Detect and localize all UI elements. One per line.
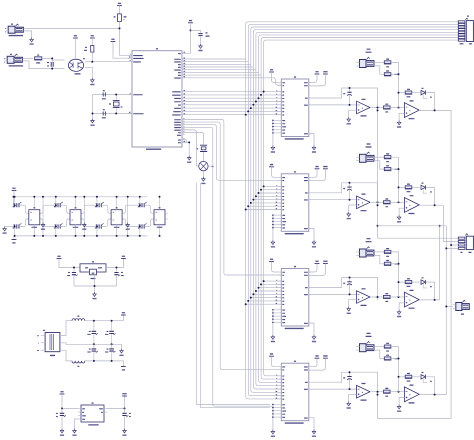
wire opto collector to PIC <box>85 52 132 63</box>
node MCLR junction <box>119 27 121 29</box>
wire opamp1a noninv to ground <box>349 110 357 117</box>
diode D clamp row 2 <box>412 183 435 206</box>
wire opamp3b output <box>419 299 439 301</box>
wire RA pin to transducer <box>182 130 196 166</box>
wire R to opamp4b <box>390 391 404 393</box>
ground opamp3a <box>347 307 351 314</box>
wire opamp2a noninv to ground <box>349 205 357 212</box>
capacitor pair ladder col 1 <box>13 196 29 237</box>
wire divider to node row 1 <box>391 62 400 107</box>
op-amp U REF08 voltage reference <box>78 403 107 426</box>
wire Vdd to VCC <box>190 25 192 54</box>
resistor R load row 3 <box>384 260 398 266</box>
wire opamp2b noninv to ground <box>399 208 404 215</box>
ground opamp1a <box>347 117 351 124</box>
ground DAC4 right <box>312 430 316 437</box>
power P/V regulator <box>57 256 80 268</box>
wire R to opamp3b <box>390 296 404 298</box>
capacitor pair ladder col 2 <box>40 196 70 237</box>
resistor R trim row 3 <box>384 248 391 257</box>
capacitor C psu bottom 2 <box>105 344 116 362</box>
capacitor C1 input <box>47 57 53 69</box>
op-amp U4.1 LT1112 I-V <box>357 383 371 401</box>
node bus junctions row 3 <box>245 280 265 305</box>
op-amp U4 DAC08CN digital-analog converter <box>273 171 309 234</box>
wire DAC1 RFB feedback <box>309 88 378 110</box>
wire osc ground leg <box>92 95 94 119</box>
power P/V VREF DAC1 <box>309 71 328 86</box>
ground opamp2b <box>397 215 401 222</box>
wire xfmr mid <box>60 343 122 345</box>
wire opamp1b output <box>419 109 451 111</box>
wire jack row 3 <box>374 252 384 264</box>
ground opto emitter <box>90 78 94 85</box>
power N/V PSU <box>121 367 126 371</box>
capacitor pair ladder col 4 <box>122 196 154 237</box>
capacitor C feedback row 2 <box>343 182 352 201</box>
resistor R gain row 2 <box>384 198 391 207</box>
wire DAC4 OUT2 to ground <box>309 418 314 430</box>
wire R1 to MCLR node <box>120 22 133 56</box>
capacitor C osc2 <box>102 109 106 118</box>
wire top rail PSU <box>85 315 124 321</box>
wire Vss to ground <box>182 140 190 156</box>
wire jack row 4 <box>374 347 384 359</box>
wire to aux power jack <box>445 306 452 308</box>
power P/V ref <box>60 391 78 409</box>
resistor R gain row 3 <box>384 293 391 302</box>
power VCC DAC2 <box>269 164 278 177</box>
power VCC opto emitter <box>73 35 78 58</box>
connector J jack row 3 <box>356 238 374 257</box>
ground below MIDI connector <box>30 38 34 45</box>
ground ladder 3 <box>126 196 130 237</box>
wire CV out row1 buffered <box>377 110 459 418</box>
wire opamp3a output <box>370 296 383 298</box>
wire ladder input feed <box>13 196 16 205</box>
wire feedback stage2 row 3 <box>398 281 405 283</box>
wire data bus verticals and connector bends <box>246 22 459 399</box>
op-amp U regulator 78L05 <box>80 261 106 279</box>
op-amp U4.2 LT1112 buffer <box>404 385 419 404</box>
wire ladder bottom rail <box>14 235 148 237</box>
wire divider to node row 4 <box>391 347 400 392</box>
op-amp U3.2 LT1112 buffer <box>404 290 419 309</box>
power VCC rail top <box>117 3 122 14</box>
ground DAC3 right <box>312 335 316 342</box>
connector J jack row 4 <box>356 333 374 352</box>
op-amp U2.2 LT1112 buffer <box>404 195 419 214</box>
wire jack row 2 <box>374 157 384 169</box>
wire row1 chip enable <box>264 78 282 85</box>
power P/V VREF DAC2 <box>309 166 328 181</box>
crystal X1 <box>196 145 207 161</box>
capacitor pair ladder col 3 <box>81 196 111 237</box>
wire regulator ground <box>74 275 117 292</box>
power P/V VREF DAC3 <box>309 261 328 276</box>
op-amp U ladder 3 LT1112 <box>111 196 122 237</box>
wire divider to node row 2 <box>391 157 400 202</box>
resistor R gain row 4 <box>384 388 391 397</box>
wire CV out row3 <box>439 225 441 300</box>
ground ref out cap <box>122 429 126 436</box>
power VCC for OSC <box>111 39 132 59</box>
ground Vdd cap <box>198 44 202 51</box>
ground regulator <box>92 292 96 299</box>
op-amp U1.1 LT1112 I-V <box>357 99 371 117</box>
op-amp U2.1 LT1112 I-V <box>357 194 371 212</box>
wire DAC3 RFB feedback <box>309 278 378 300</box>
wire opamp2b output <box>419 204 443 206</box>
wire R to opamp1b <box>390 107 404 109</box>
capacitor C ref in <box>56 409 66 429</box>
wire regulator out to VCC <box>106 259 124 268</box>
connector J4 CV outputs <box>458 234 473 253</box>
crystal X2 4MHz <box>109 94 122 115</box>
wire DAC select lines <box>182 120 281 407</box>
power VCC DAC1 <box>269 69 278 82</box>
resistor R load row 2 <box>384 165 398 171</box>
capacitor C2 decoupling <box>191 30 210 44</box>
wire DAC1 OUT2 to ground <box>309 134 314 146</box>
wire CV out row4 rail <box>378 226 459 395</box>
connector J jack row 1 <box>356 49 374 68</box>
wire aux control line A <box>197 183 271 405</box>
wire PIC port C to DAC1 data <box>182 92 281 115</box>
power VCC opto collector <box>90 35 95 45</box>
wire opamp4b output <box>419 394 446 396</box>
ground DAC1 left <box>271 145 275 152</box>
resistor R load row 4 <box>384 355 398 361</box>
op-amp U5 DAC08CN digital-analog converter <box>273 266 309 329</box>
resistor R load row 1 <box>384 70 398 75</box>
power N/V ladder <box>12 236 17 244</box>
op-amp U3.1 LT1112 I-V <box>357 288 371 306</box>
resistor R2 series <box>35 55 42 64</box>
wire PIC to crystal <box>182 133 204 145</box>
inductor L2 <box>72 361 85 367</box>
transformer T1 <box>37 330 60 356</box>
capacitor C feedback row 3 <box>343 277 352 296</box>
node Vdd cap junction <box>190 29 192 31</box>
wire DAC4 RFB feedback <box>309 372 378 394</box>
capacitor C osc1 <box>102 90 106 99</box>
wire OSC2 net <box>93 113 133 115</box>
ground opamp3b <box>397 310 401 317</box>
capacitor C psu top 2 <box>105 320 116 346</box>
wire PIC port B to bus <box>182 59 264 78</box>
op-amp U ladder 4 LT1112 <box>154 196 165 237</box>
ground opamp4a <box>347 401 351 408</box>
capacitor C feedback row 1 <box>343 87 352 106</box>
wire feedback stage2 row 1 <box>398 92 405 94</box>
wire DAC2 analog pins to ground <box>272 214 273 240</box>
wire CV out row1 tap <box>377 109 459 238</box>
op-amp U ladder 1 LT1112 <box>29 196 40 237</box>
wire PSU mid to ground <box>121 344 123 348</box>
ground ref pin <box>72 429 76 436</box>
power VREF out <box>122 393 127 396</box>
resistor R trim row 2 <box>384 153 391 162</box>
ground opamp4b <box>397 405 401 412</box>
wire DAC2 RFB feedback <box>309 183 378 205</box>
wire MIDI to MCU net <box>23 27 119 29</box>
capacitor C reg out <box>114 267 123 287</box>
resistor R feedback2 row 3 <box>405 278 412 287</box>
wire opto emitter to ground <box>85 67 92 78</box>
ground ladder input <box>3 227 16 234</box>
resistor R feedback2 row 4 <box>405 373 412 382</box>
resistor R feedback2 row 2 <box>405 184 412 193</box>
optocoupler U2 <box>68 58 85 74</box>
resistor R feedback2 row 1 <box>405 89 412 98</box>
wire opamp3a noninv to ground <box>349 300 357 307</box>
wire opamp4b noninv to ground <box>399 398 404 405</box>
wire MIDI shield to ground <box>23 31 31 38</box>
wire xfmr top <box>60 321 72 336</box>
wire ref out <box>107 396 126 410</box>
resistor R trim row 1 <box>384 59 391 68</box>
capacitor C ref out <box>122 409 131 429</box>
wire opamp1a output <box>370 107 383 109</box>
resistor R1 pullup <box>114 14 127 22</box>
wire ladder top rail <box>14 196 148 198</box>
wire opamp1b noninv to ground <box>399 113 404 120</box>
wire aux control line B <box>201 183 271 408</box>
ground DAC4 left <box>271 430 275 437</box>
capacitor C psu top 1 <box>87 320 98 346</box>
wire ladder output <box>165 213 168 219</box>
op-amp U ladder 2 LT1112 <box>70 196 81 237</box>
transducer LS1 <box>196 161 213 176</box>
ground ladder 1 <box>41 196 45 237</box>
diode D clamp row 1 <box>412 88 435 111</box>
connector J3 gate outputs <box>458 16 473 45</box>
ground DAC2 left <box>271 240 275 247</box>
wire R2 to opto anode <box>42 58 65 60</box>
ground DAC2 right <box>312 240 316 247</box>
ground oscillator <box>90 119 94 126</box>
wire xfmr bottom <box>60 350 72 361</box>
connector J jack row 2 <box>356 143 374 162</box>
capacitor C feedback row 4 <box>343 371 352 390</box>
wire feedback stage2 row 4 <box>398 376 405 378</box>
power VCC DAC3 <box>269 259 278 272</box>
diode D clamp row 3 <box>412 277 435 300</box>
wire bottom rail PSU <box>85 361 124 367</box>
wire opamp4a output <box>370 391 383 393</box>
resistor R gain row 1 <box>384 104 391 113</box>
ground ladder 2 <box>82 196 86 237</box>
wire opamp3b noninv to ground <box>399 303 404 310</box>
wire MIC to R2 <box>22 57 33 59</box>
node bus junctions row 1 <box>245 91 265 116</box>
connector J5 aux jack <box>453 300 470 314</box>
wire MIC return <box>22 61 64 69</box>
ground opamp1b <box>397 120 401 127</box>
diode D clamp row 4 <box>412 372 435 395</box>
op-amp U1.2 LT1112 buffer <box>404 100 419 119</box>
node bus junctions row 2 <box>245 185 265 210</box>
op-amp U1 PIC16F876 microcontroller <box>129 48 191 150</box>
wire feedback stage2 row 2 <box>398 186 405 188</box>
wire R to opamp2b <box>390 201 404 203</box>
wire opamp4a noninv to ground <box>349 394 357 401</box>
wire divider to node row 3 <box>391 252 400 297</box>
wire DAC3 OUT2 to ground <box>309 323 314 335</box>
wire ref gnd pin <box>75 419 79 429</box>
ground PSU <box>119 349 123 356</box>
wire DAC1 analog pins to ground <box>272 120 273 146</box>
ground PIC Vss <box>187 156 191 163</box>
wire DAC4 analog pins to ground <box>272 404 273 430</box>
capacitor C psu bottom 1 <box>87 344 98 362</box>
op-amp U6 DAC08CN digital-analog converter <box>273 361 309 424</box>
wire jack row 1 <box>374 62 384 74</box>
power P/V ladder <box>12 188 17 197</box>
power VCC Vdd <box>188 20 193 23</box>
wire OSC1 net <box>93 94 133 96</box>
op-amp U3 DAC08CN digital-analog converter <box>273 76 309 139</box>
capacitor C reg in <box>67 267 77 287</box>
power VCC DAC4 <box>269 353 278 366</box>
resistor R trim row 4 <box>384 343 391 352</box>
ground opamp2a <box>347 212 351 219</box>
wire CV out row2 <box>444 205 459 241</box>
wire bus branch to DAC3 <box>246 281 282 304</box>
ground DAC1 right <box>312 145 316 152</box>
resistor R3 collector pullup <box>84 46 94 53</box>
ground DAC3 left <box>271 335 275 342</box>
power VCC regulator <box>121 256 126 259</box>
wire DAC2 OUT2 to ground <box>309 228 314 240</box>
power P/V VREF DAC4 <box>309 355 328 370</box>
power P/V PSU <box>121 312 126 315</box>
wire opamp2a output <box>370 201 383 203</box>
connector J1 MIDI IN <box>5 24 23 37</box>
inductor L1 <box>72 316 85 321</box>
wire DAC3 analog pins to ground <box>272 309 273 335</box>
wire bus branch to DAC2 <box>246 186 282 209</box>
ground ref cap <box>60 429 64 436</box>
connector J2 MIC IN <box>4 54 23 67</box>
ground under transducer <box>201 177 205 184</box>
